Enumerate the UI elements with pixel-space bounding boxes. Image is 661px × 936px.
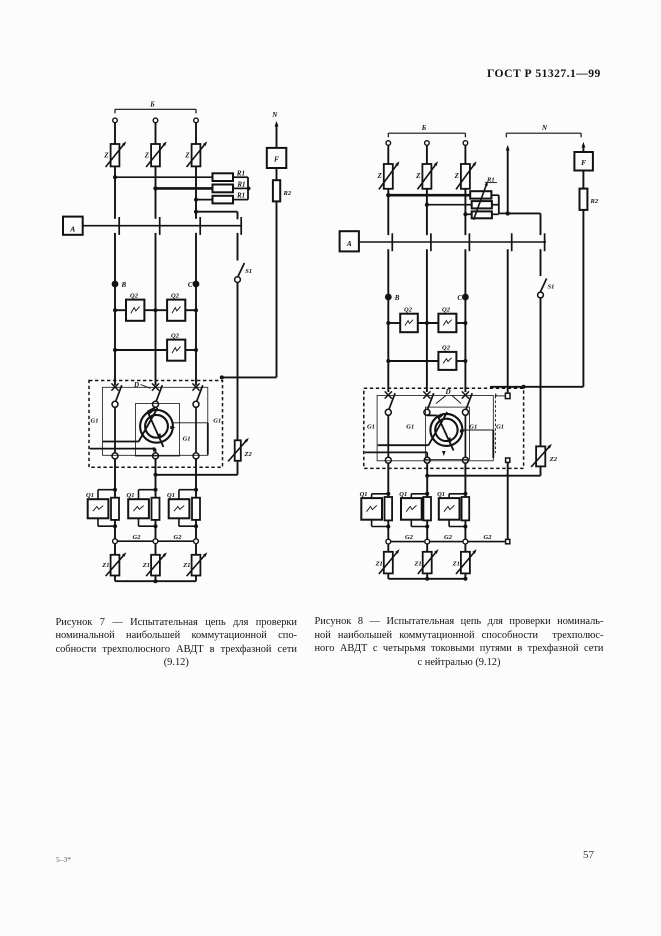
wire phase2 vertical	[155, 166, 157, 218]
svg-text:F: F	[274, 155, 279, 164]
frame inner thin box	[103, 387, 208, 455]
svg-text:Q2: Q2	[171, 292, 180, 299]
wire Z2 to phase2	[156, 461, 238, 475]
arrow toroid out (fig8)	[442, 451, 446, 456]
svg-text:Q2: Q2	[404, 306, 413, 313]
node C	[188, 281, 200, 289]
terminal pole3 out	[193, 453, 199, 459]
impedance Z phase2	[144, 140, 168, 167]
device A box (fig8)	[340, 231, 359, 251]
tick link phase2 (fig8)	[430, 233, 432, 251]
device F box (fig8)	[574, 152, 593, 171]
transformer toroid G1 (fig8)	[430, 414, 462, 446]
svg-text:G2: G2	[405, 534, 414, 541]
svg-text:Q2: Q2	[130, 292, 139, 299]
wire toroid bottom (fig8)	[365, 452, 427, 457]
wire phase3 to S1 branch	[194, 210, 238, 220]
node Б supply bracket (fig8)	[388, 124, 465, 137]
svg-text:G1: G1	[469, 424, 477, 431]
tick link S1 branch	[240, 217, 242, 235]
svg-text:N: N	[541, 124, 548, 132]
impedance Z1 phase1	[101, 551, 127, 576]
wire feed phase3 to R1c	[194, 198, 213, 202]
contact pole3 (fig8)	[462, 391, 472, 415]
svg-text:Z: Z	[454, 172, 460, 180]
wire neutral to S1 branch (fig8)	[508, 213, 541, 235]
svg-text:Q1: Q1	[127, 492, 135, 499]
svg-text:Z: Z	[184, 152, 190, 160]
device F box	[267, 148, 287, 168]
load Q2 box3	[167, 332, 185, 360]
sensor Q1 phase2	[127, 488, 160, 529]
header ГОСТ number	[487, 67, 600, 80]
wire pole1 exit	[114, 459, 116, 498]
wire F to R2	[276, 168, 278, 180]
caption figure 7	[56, 617, 298, 671]
enclosure dashed box (RCBO)	[89, 381, 223, 468]
svg-text:Q1: Q1	[360, 491, 368, 498]
wire pole1 straight	[114, 407, 116, 453]
wire phase1 vertical	[114, 166, 116, 218]
wire S1 to Z2 (fig8)	[540, 298, 542, 447]
wire Q2 row2	[113, 348, 198, 352]
label D linkage (fig8)	[436, 388, 461, 404]
arrow toroid in3 (fig8)	[447, 437, 453, 443]
wire phase1 below bus	[114, 233, 116, 385]
svg-text:R2: R2	[590, 198, 599, 205]
svg-text:G1: G1	[406, 424, 414, 431]
svg-text:Z2: Z2	[244, 451, 253, 458]
wire R1 right bus	[233, 177, 251, 199]
footer page marks	[56, 855, 71, 864]
svg-text:Q2: Q2	[171, 332, 180, 339]
svg-text:G2: G2	[484, 534, 493, 541]
wire L2 drop	[155, 123, 157, 144]
wire L drops (fig8)	[388, 145, 465, 164]
switch S1 (fig8)	[538, 249, 555, 298]
wire phase1 below bus (fig8)	[387, 249, 389, 392]
impedance Z1 phase2	[142, 551, 168, 576]
svg-text:D: D	[444, 388, 450, 396]
wire A bus (fig8)	[359, 241, 546, 243]
svg-text:G1: G1	[213, 417, 221, 424]
impedance Z phase3 (fig8)	[454, 160, 478, 189]
wire feed phase1 to R1a	[113, 175, 213, 179]
sensor Q1 phase2 (fig8)	[399, 491, 431, 529]
transformer toroid G1	[140, 410, 173, 443]
sensor Q1 phase3 (fig8)	[437, 491, 469, 529]
svg-text:G1: G1	[496, 424, 504, 431]
load Q2 box3 (fig8)	[438, 345, 456, 370]
svg-text:Z1: Z1	[101, 562, 109, 569]
label G1 right	[213, 417, 221, 424]
svg-text:Q1: Q1	[437, 491, 445, 498]
impedance Z1 phase1 (fig8)	[375, 548, 401, 574]
svg-text:D: D	[133, 381, 139, 389]
wire G2 to Z1 (fig8)	[388, 544, 465, 552]
wire pole1 exit (fig8)	[387, 463, 389, 497]
wire phase3 vertical	[195, 166, 197, 218]
wire G1 secondary tap (fig8)	[462, 430, 493, 458]
bus G2 (fig8)	[386, 534, 510, 544]
impedance Z phase1 (fig8)	[377, 160, 401, 189]
contact pole2 (fig8)	[423, 391, 433, 415]
arrow rail top (fig8)	[581, 142, 585, 152]
wire G1 secondary tap	[173, 423, 208, 455]
label G1 a (fig8)	[367, 424, 375, 431]
svg-text:Z1: Z1	[182, 562, 190, 569]
resistor R2	[273, 180, 292, 201]
terminal pole3 out (fig8)	[462, 457, 468, 463]
terminal L3 (fig8)	[463, 141, 468, 146]
svg-text:N: N	[271, 111, 278, 119]
svg-text:A: A	[69, 224, 75, 233]
switch S1	[235, 233, 253, 283]
wire pole3 straight (fig8)	[464, 415, 466, 457]
arrow toroid in1	[148, 410, 154, 416]
impedance Z phase2 (fig8)	[415, 160, 439, 189]
wire G2 to Z1	[115, 544, 196, 555]
terminal pole1 out	[112, 453, 118, 459]
svg-text:G2: G2	[174, 534, 183, 541]
wire test lead to rail (fig8)	[490, 385, 583, 389]
wire pole3 exit (fig8)	[464, 463, 466, 497]
svg-text:R1: R1	[236, 192, 245, 200]
wire bottom bus	[115, 576, 196, 584]
impedance Z1 phase3 (fig8)	[452, 548, 478, 574]
frame inner thin box (fig8)	[377, 396, 493, 461]
wire pole2 exit (fig8)	[425, 463, 429, 497]
arrow toroid in2	[170, 426, 175, 430]
wire rail down	[276, 201, 278, 377]
terminal L1 (fig8)	[386, 141, 391, 146]
svg-text:Q2: Q2	[442, 306, 451, 313]
resistor R1c	[213, 192, 246, 204]
node N label	[271, 111, 278, 119]
node B	[112, 281, 127, 289]
svg-text:Q1: Q1	[399, 491, 407, 498]
load Q2 box1	[126, 292, 144, 320]
load Q2 box2	[167, 292, 185, 320]
wire phase3 below bus	[195, 233, 197, 385]
bus G2	[113, 534, 199, 544]
terminal pole2 out	[153, 453, 159, 459]
svg-text:S1: S1	[245, 268, 252, 275]
label G1 c (fig8)	[469, 424, 477, 431]
wire R1 bus to neutral (fig8)	[491, 195, 510, 215]
svg-text:Z1: Z1	[452, 561, 460, 568]
tick link phase3 (fig8)	[468, 233, 470, 251]
svg-text:R2: R2	[283, 190, 292, 197]
svg-text:G1: G1	[91, 417, 99, 424]
arrow toroid out	[152, 448, 156, 453]
caption figure 8	[315, 616, 604, 670]
svg-text:Б: Б	[421, 124, 427, 132]
svg-text:R1: R1	[236, 170, 245, 178]
tick link phase1 (fig8)	[391, 233, 393, 251]
wire neutral exit (fig8)	[507, 462, 509, 539]
contact neutral pole (fig8)	[495, 393, 510, 453]
resistor bank R1 (fig8)	[470, 176, 497, 220]
terminal pole1 out (fig8)	[385, 457, 391, 463]
svg-text:B: B	[394, 294, 400, 302]
wire bottom bus (fig8)	[388, 573, 467, 580]
svg-text:Q1: Q1	[167, 492, 175, 499]
tick link phase1	[118, 217, 120, 235]
sensor Q1 phase3	[167, 488, 200, 529]
svg-text:Q1: Q1	[86, 492, 94, 499]
terminal neutral out (fig8)	[506, 458, 510, 462]
svg-text:C: C	[457, 294, 462, 302]
resistor R1a	[213, 170, 245, 182]
wire F to R2 (fig8)	[582, 171, 584, 189]
label G1 left	[91, 417, 99, 424]
wire drops to G2 (fig8)	[388, 520, 465, 539]
wire Q2 row1	[113, 308, 198, 312]
wire test lead to rail	[220, 375, 277, 379]
wire phase verticals (fig8)	[388, 189, 465, 235]
wire feed phase2 to R1b	[153, 186, 212, 190]
svg-text:G2: G2	[444, 534, 453, 541]
contact pole1	[111, 383, 121, 407]
wire toroid feed upper (fig8)	[378, 412, 447, 445]
wire rail down (fig8)	[582, 210, 584, 387]
resistor R1b	[213, 180, 246, 192]
contact pole1 (fig8)	[385, 391, 395, 415]
device A box	[63, 217, 83, 235]
svg-text:R1: R1	[236, 180, 245, 188]
label G1 b (fig8)	[406, 424, 414, 431]
svg-text:G1: G1	[367, 424, 375, 431]
wire phase2 below bus (fig8)	[426, 249, 428, 392]
svg-text:G2: G2	[133, 534, 142, 541]
label G1 d (fig8)	[496, 424, 504, 431]
tick link phase2	[159, 217, 161, 235]
arrow toroid in3	[157, 433, 163, 439]
wire pole3 exit	[195, 459, 197, 498]
load Q2 box1 (fig8)	[400, 306, 418, 332]
svg-text:Z1: Z1	[142, 562, 150, 569]
wire pole2 through toroid	[148, 407, 164, 447]
svg-text:Z1: Z1	[375, 561, 383, 568]
impedance Z1 phase2 (fig8)	[413, 548, 439, 574]
wire feed phase1 to R1 (fig8)	[386, 193, 470, 197]
terminal L2 (fig8)	[425, 141, 430, 146]
sensor Q1 phase1	[86, 488, 119, 529]
frame toroid thin box	[136, 404, 180, 457]
svg-text:S1: S1	[548, 283, 555, 290]
svg-text:B: B	[121, 281, 127, 289]
svg-text:F: F	[581, 158, 586, 167]
svg-text:Б: Б	[149, 101, 155, 109]
impedance Z phase1	[103, 140, 127, 167]
wire neutral below bus (fig8)	[507, 249, 509, 393]
tick link phase3	[199, 217, 201, 235]
node C (fig8)	[457, 294, 468, 302]
tick link S1 (fig8)	[544, 233, 546, 251]
svg-text:Q2: Q2	[442, 345, 451, 352]
wire A bus	[83, 225, 242, 227]
svg-text:C: C	[188, 281, 193, 289]
terminal L1	[113, 118, 118, 123]
wire phase3 below bus (fig8)	[464, 249, 466, 392]
arrow toroid in1 (fig8)	[438, 414, 444, 420]
svg-text:Z2: Z2	[549, 456, 558, 463]
contact pole2	[152, 383, 162, 407]
impedance Z1 phase3	[182, 551, 208, 576]
wire toroid bottom	[90, 449, 156, 453]
enclosure dashed box (fig8)	[364, 388, 524, 468]
terminal L2	[153, 118, 158, 123]
contact pole3	[192, 383, 202, 407]
node N supply bracket (fig8)	[506, 124, 581, 137]
wire pole2 through toroid (fig8)	[427, 415, 454, 450]
arrow toroid in2 (fig8)	[460, 429, 465, 433]
wire feed phase2 to R1 (fig8)	[425, 203, 472, 207]
svg-text:G1: G1	[183, 435, 191, 442]
tick link neutral (fig8)	[511, 233, 513, 251]
wire pole2 exit	[154, 459, 158, 498]
impedance Z2 (fig8)	[531, 443, 558, 467]
wire pole1 straight (fig8)	[387, 415, 389, 457]
wire feed phase3 to R1 (fig8)	[463, 212, 471, 216]
label D linkage	[133, 381, 151, 389]
impedance Z2	[228, 437, 252, 462]
wire toroid feed upper	[103, 408, 158, 442]
wire Q2 row2 (fig8)	[386, 359, 467, 363]
wire phase2 below bus	[155, 233, 157, 385]
node Б supply bracket	[115, 101, 196, 114]
wire L3 drop	[195, 123, 197, 144]
wire phase drops to G2	[115, 520, 196, 539]
arrow N line	[275, 121, 279, 148]
wire L1 drop	[114, 123, 116, 144]
sensor Q1 phase1 (fig8)	[360, 491, 393, 529]
load Q2 box2 (fig8)	[438, 306, 456, 332]
arrow neutral line top (fig8)	[506, 145, 510, 214]
svg-text:Z: Z	[144, 152, 150, 160]
terminal pole2 out (fig8)	[424, 457, 430, 463]
svg-text:A: A	[346, 239, 352, 248]
resistor R2 (fig8)	[580, 189, 599, 210]
wire Q2 row1 (fig8)	[386, 321, 467, 325]
terminal L3	[194, 118, 199, 123]
svg-text:Z1: Z1	[413, 561, 421, 568]
wire Z2 to phase2 (fig8)	[427, 466, 540, 475]
label G1 mid	[183, 435, 191, 442]
wire pole3 straight	[195, 407, 197, 453]
impedance Z phase3	[184, 140, 208, 167]
frame toroid thin box (fig8)	[425, 407, 469, 460]
wire S1 to Z2	[237, 283, 239, 441]
svg-text:Z: Z	[103, 152, 109, 160]
svg-text:Z: Z	[377, 172, 383, 180]
svg-text:Z: Z	[415, 172, 421, 180]
node B (fig8)	[385, 294, 400, 302]
